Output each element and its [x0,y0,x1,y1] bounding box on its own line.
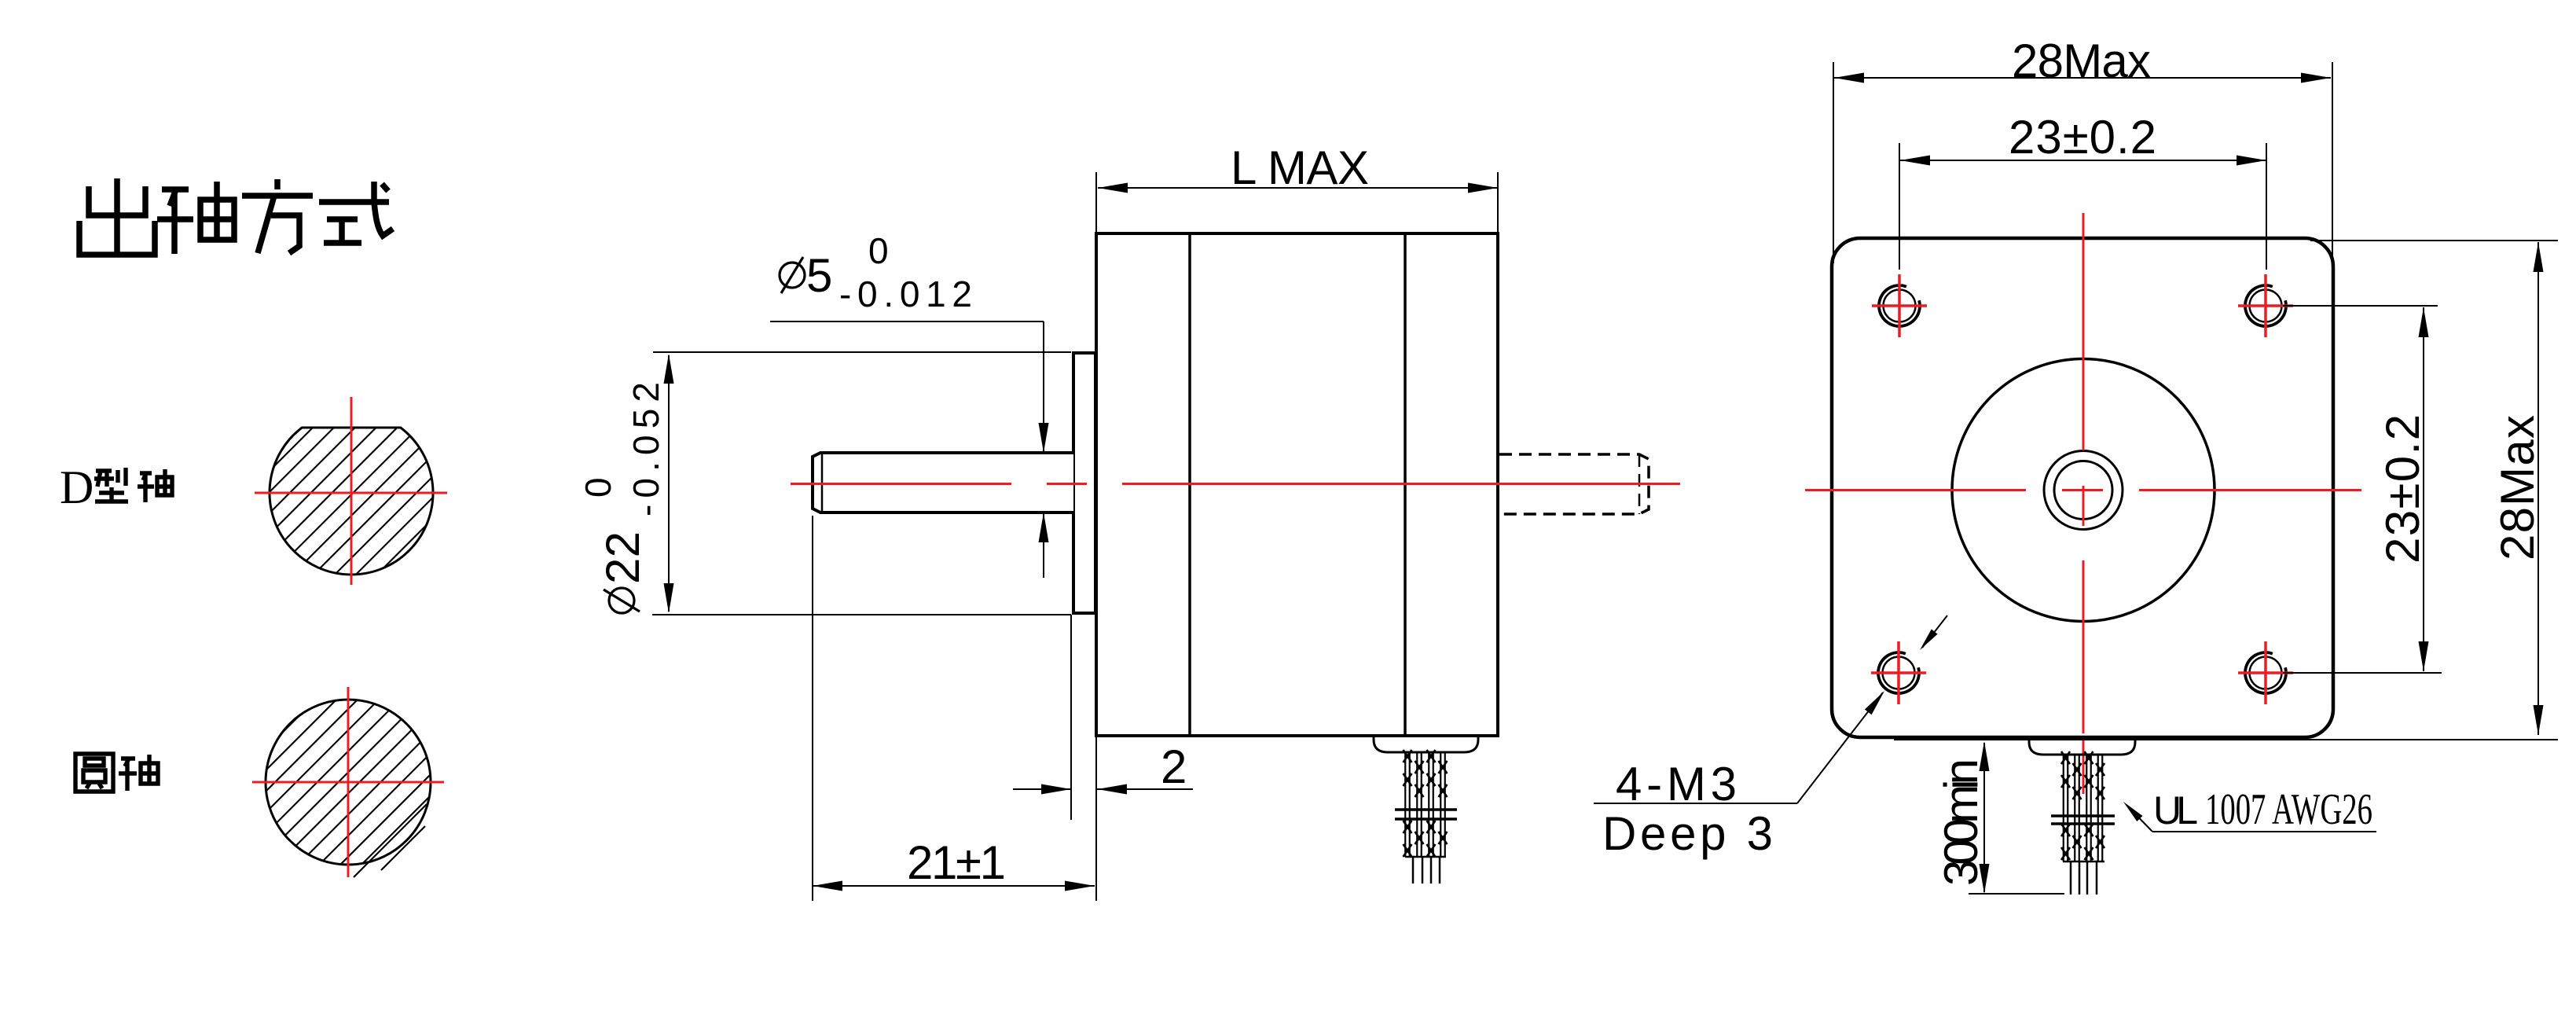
svg-text:21±1: 21±1 [907,836,1006,889]
label 圆轴 [75,754,158,792]
middle centerline (red) [791,483,1680,485]
svg-text:23±0.2: 23±0.2 [2009,111,2156,163]
dimension L MAX [1096,172,1498,232]
wire exit grommet (side view) [1374,737,1478,752]
svg-text:4-M3: 4-M3 [1616,758,1737,810]
dimension 300min (wire length) [1969,743,2064,894]
shaft circles [2044,451,2123,530]
svg-text:Deep 3: Deep 3 [1602,807,1773,860]
D-type shaft section (hatched) [270,428,433,575]
dimension 23±0.2 (right, vertical) [2283,306,2442,673]
front shaft [813,453,1073,512]
svg-text:22: 22 [596,531,649,584]
cable clamp (side view) [1395,810,1457,819]
svg-text:-0.052: -0.052 [626,382,666,516]
wire bundle (side view) [1405,753,1445,857]
motor face front view [1832,238,2333,737]
rear shaft (hidden, dashed) [1499,454,1649,514]
dimension ø22 0/-0.052 [652,352,1071,615]
svg-text:28Max: 28Max [2012,35,2151,87]
dimension 2 (boss thickness) [1070,615,1072,820]
wire exit grommet (front view) [2029,739,2135,755]
wire bundle (front view) [2064,755,2103,862]
dimension 28Max (top) [1833,62,2332,263]
svg-text:1007 AWG26: 1007 AWG26 [2205,785,2372,834]
stray hatch overflow lines [354,804,427,877]
wire tails (side view) [1413,857,1440,884]
svg-text:0: 0 [578,477,618,498]
round circle centerline [252,687,444,877]
dimension 23±0.2 (top) [1899,143,2266,270]
dimension ø5 0/-0.012 [780,263,805,288]
pilot circle [1952,359,2215,622]
svg-text:L MAX: L MAX [1231,141,1369,194]
front pilot boss [1073,353,1095,613]
svg-text:-0.012: -0.012 [839,274,972,314]
dimension 21±1 (shaft length) [813,516,1096,901]
cable clamp (front view) [2051,816,2115,824]
title text 出轴方式 [79,178,393,257]
svg-text:UL: UL [2153,788,2198,832]
svg-text:D: D [60,461,94,513]
motor body side view [1096,233,1498,736]
dimension 28Max (right, vertical) [1894,241,2558,740]
4 mounting holes M3 [1884,290,1916,322]
D circle centerline [255,397,447,585]
svg-text:2: 2 [1161,740,1187,793]
wire tails (front view) [2071,862,2097,895]
svg-text:5: 5 [806,249,832,302]
svg-text:23±0.2: 23±0.2 [2376,414,2429,564]
front view centerlines (red) [1805,213,2361,794]
svg-text:28Max: 28Max [2491,415,2544,560]
round shaft section (hatched) [266,700,431,865]
end-bell separation lines [1188,233,1191,736]
svg-text:300min: 300min [1935,759,1987,886]
svg-text:0: 0 [868,230,889,271]
